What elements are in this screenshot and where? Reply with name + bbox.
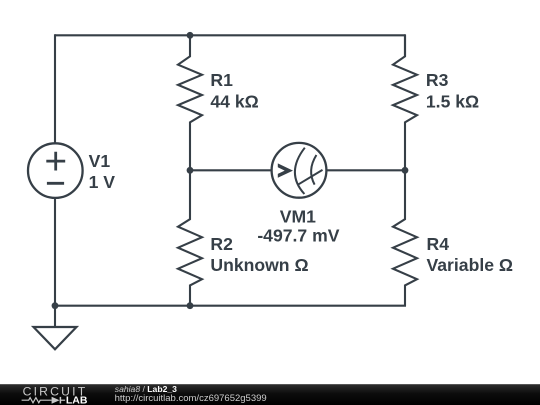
wire left vertical lower bbox=[54, 198, 56, 307]
wire mid rail left segment bbox=[190, 169, 272, 171]
svg-text:R3: R3 bbox=[426, 70, 449, 90]
svg-text:-497.7 mV: -497.7 mV bbox=[257, 225, 339, 245]
svg-text:V1: V1 bbox=[89, 151, 111, 171]
svg-text:1 V: 1 V bbox=[89, 172, 116, 192]
wire right vertical R3 top lead bbox=[404, 34, 406, 56]
junction at R1 bottom node bbox=[187, 167, 194, 174]
junction at R1 top bbox=[187, 32, 194, 39]
voltage source V1 bbox=[28, 143, 83, 198]
wire bottom rail bbox=[54, 305, 406, 307]
ground bbox=[34, 306, 77, 350]
svg-text:R1: R1 bbox=[210, 70, 233, 90]
junction at ground bbox=[52, 302, 59, 309]
junction at R2 bottom bbox=[187, 302, 194, 309]
wire left vertical upper bbox=[54, 34, 56, 143]
wire mid rail right segment bbox=[326, 169, 405, 171]
resistor R2 bbox=[178, 170, 202, 306]
svg-text:VM1: VM1 bbox=[280, 207, 316, 227]
svg-text:R2: R2 bbox=[210, 234, 233, 254]
wire top rail bbox=[55, 34, 405, 36]
svg-text:LAB: LAB bbox=[66, 395, 88, 405]
svg-text:Variable Ω: Variable Ω bbox=[427, 255, 513, 275]
resistor R3 bbox=[393, 35, 417, 171]
svg-text:Unknown Ω: Unknown Ω bbox=[210, 255, 308, 275]
junction at R3 bottom node bbox=[402, 167, 409, 174]
svg-text:R4: R4 bbox=[427, 234, 450, 254]
resistor R1 bbox=[178, 35, 202, 171]
svg-text:1.5 kΩ: 1.5 kΩ bbox=[426, 91, 479, 111]
svg-text:44 kΩ: 44 kΩ bbox=[210, 91, 258, 111]
resistor R4 bbox=[393, 170, 417, 306]
CircuitLab logo resistor squiggle and diode bbox=[22, 397, 66, 404]
svg-text:http://circuitlab.com/cz697652: http://circuitlab.com/cz697652g5399 bbox=[115, 393, 267, 404]
voltmeter VM1 bbox=[272, 143, 327, 198]
